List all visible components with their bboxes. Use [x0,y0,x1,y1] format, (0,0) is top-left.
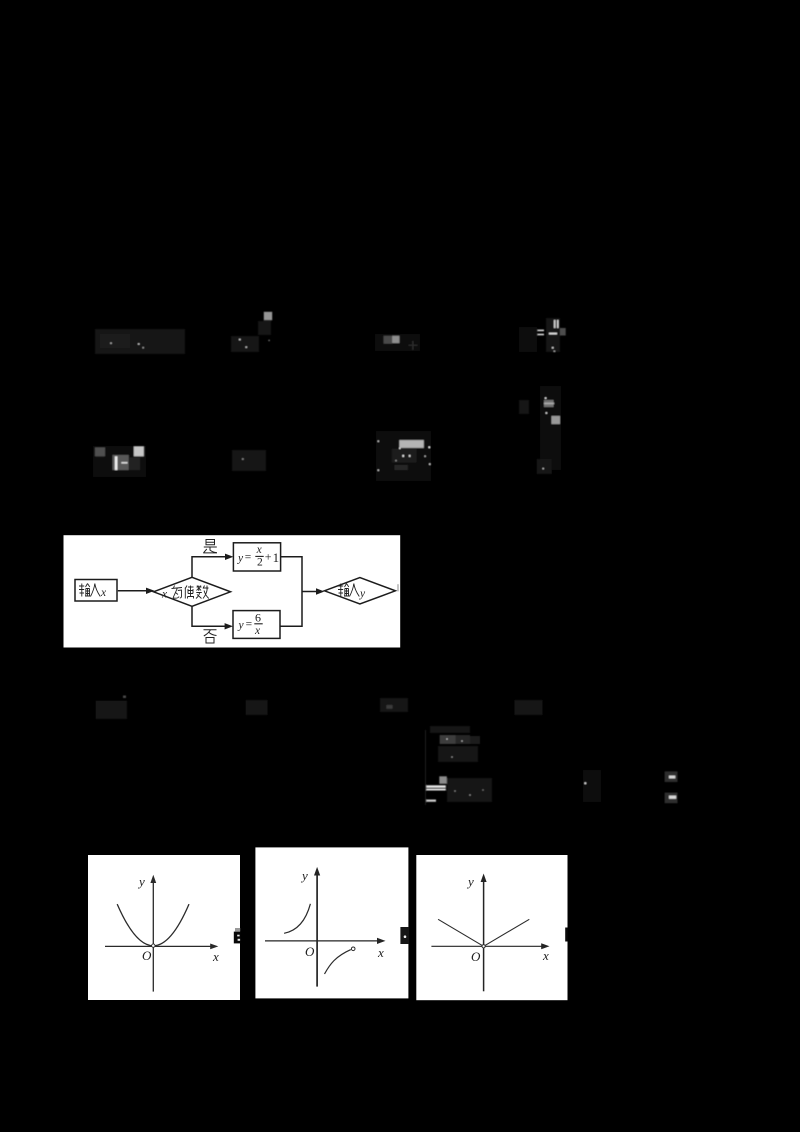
box y=x/2+1 [233,543,280,571]
fraction bar x/2 [255,555,263,557]
arrowhead yB [314,867,320,876]
svg-text:x: x [100,587,107,599]
arrowhead into diamond1 [146,588,155,594]
gray artifact near panel right edge [397,584,399,591]
formula y=6/x [238,611,262,637]
formula smudge tallcol [519,400,529,414]
wire into diamond2 [302,591,319,593]
open circle Q4 [351,947,355,951]
label 否 [204,630,217,643]
arrowhead into diamond2 [316,588,324,594]
box 输入x [75,580,117,602]
box y=6/x [233,611,280,639]
ray left [438,919,484,946]
option letter C mark [400,927,409,944]
svg-text:1: 1 [273,550,280,565]
graph panel C [416,855,567,1000]
option letter B mark [235,928,240,931]
origin circle C [482,945,485,948]
formula y=x/2+1 [237,544,279,569]
svg-text:y: y [466,874,474,889]
formula smudge r2b [232,450,266,471]
curve Q4 [325,950,351,974]
option row smudge 3b [246,700,268,715]
option row smudge 3d [514,700,542,715]
axis xC [431,945,543,947]
wire yes-branch [192,557,228,578]
label 输入y [338,584,359,597]
formula smudge r2c [376,431,431,481]
graph panel B [255,847,408,998]
origin circle A [152,944,155,947]
svg-text:y: y [300,868,308,883]
wire rect1 to diamond1 [118,590,149,592]
arrowhead yC [481,874,487,883]
svg-text:x: x [254,625,261,637]
label 是 [203,540,217,553]
svg-text:x: x [161,589,168,601]
parabola [117,904,189,946]
arrowhead yA [150,875,156,883]
svg-text:O: O [471,949,481,964]
formula smudge r1a [95,329,185,354]
axis yA [152,877,154,992]
svg-text:2: 2 [257,557,263,569]
svg-text:y: y [137,874,145,889]
diamond2 输入y [324,578,395,604]
wire merge right [280,557,302,627]
FLOWCHART [64,535,401,647]
svg-text:y: y [237,553,244,565]
wire no-branch [192,606,228,626]
labels A [137,874,219,964]
formula smudge r1d [519,327,537,352]
svg-text:x: x [542,948,549,963]
axis xA [105,945,216,947]
labels B [300,868,384,960]
axis yB [316,870,318,987]
arrowhead xC [541,943,549,949]
axis yC [483,876,485,991]
svg-text:=: = [245,552,252,564]
ray right [484,919,530,946]
arrowhead into bottom box [225,623,233,629]
graph panel A [88,855,240,1000]
svg-text:+: + [265,550,272,564]
right fragment d2 [665,771,678,782]
svg-text:O: O [142,948,152,963]
arrowhead into top box [225,554,233,560]
axis xB [265,940,380,942]
diamond1 x为偶数 [154,577,231,606]
GRAPHS [88,847,568,1000]
svg-text:x: x [377,945,384,960]
piecewise function smudge [425,730,427,805]
label 输入x [79,584,100,597]
svg-text:y: y [359,588,366,600]
svg-text:y: y [238,620,245,632]
right fragment d1 [583,770,601,802]
arrowhead xB [377,938,386,944]
svg-text:6: 6 [255,611,261,625]
formula smudge r1c [375,334,420,351]
flowchart white panel [64,535,401,647]
arrowhead xA [210,944,218,950]
labels C [466,874,549,964]
svg-text:=: = [246,619,253,631]
option letter D notch [565,928,567,942]
option row smudge 3a [96,701,127,719]
option row smudge 3c [380,698,408,712]
formula smudge r1b [264,312,272,320]
formula smudge r2a [93,446,146,477]
FAINT-LAYER [93,312,678,805]
svg-text:O: O [305,944,315,959]
hyperbola branch Q2 [284,904,310,934]
svg-text:x: x [212,949,219,964]
svg-text:x: x [256,544,263,556]
fraction bar 6/x [254,623,262,625]
